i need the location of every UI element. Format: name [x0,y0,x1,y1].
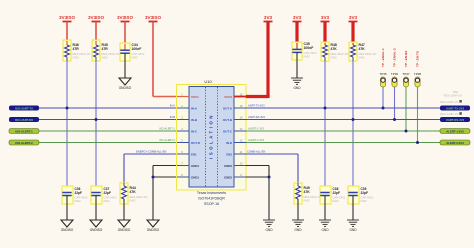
svg-text:ISO-UART-TX: ISO-UART-TX [15,106,33,110]
svg-text:ISOLATION: ISOLATION [209,113,214,159]
wire ALERT-2-3V3 [246,138,440,142]
svg-text:GND1: GND1 [191,175,199,179]
ground GND 4 [347,220,359,232]
svg-text:47K: 47K [304,190,311,194]
svg-text:VCC2: VCC2 [224,95,232,99]
svg-text:GNDISO: GNDISO [61,228,74,232]
wire C34 to GNDISO [124,61,126,78]
net label UART-TX-3V3 [440,106,470,111]
svg-text:47K: 47K [359,47,366,51]
svg-text:3V3ISO: 3V3ISO [59,15,76,20]
wire R45 net ISO-UART-RX vertical [95,61,97,192]
svg-text:RES-100R-1%: RES-100R-1% [440,112,459,116]
wire C35 to GND [296,60,298,78]
net label ALERT-2-3V3 [440,140,470,145]
svg-text:47K: 47K [130,190,137,194]
svg-text:0402: 0402 [359,56,366,60]
svg-text:IN-C: IN-C [191,129,198,133]
svg-text:0402: 0402 [102,56,109,60]
test point TP38 [414,50,422,87]
svg-text:0402: 0402 [104,199,111,203]
svg-text:ISO-ALERT-1: ISO-ALERT-1 [159,127,175,131]
wire TP38 [417,87,419,143]
svg-text:ENERGY-COMB-ALL-EN: ENERGY-COMB-ALL-EN [136,150,166,154]
net label ISO-ALERT-1 [9,129,39,134]
svg-text:3V3: 3V3 [293,15,302,20]
svg-text:0402: 0402 [304,55,311,59]
svg-text:22pF: 22pF [333,191,340,195]
power 3V3 P6 [293,15,302,44]
test point TP35 [379,48,387,87]
net label UART-RX-3V3 [440,117,470,122]
svg-text:ALERT-1-3V3: ALERT-1-3V3 [446,129,464,133]
svg-text:47K: 47K [331,47,338,51]
wire C39 to GND [352,204,354,220]
svg-text:TP - EN-RX: TP - EN-RX [404,50,408,67]
note grey DNP R51 [440,112,462,116]
junction GND2 [268,176,271,179]
power 3V3ISO P2 [88,15,105,41]
svg-text:UART-RX-3V3: UART-RX-3V3 [248,115,265,119]
svg-text:RES-100R-1%: RES-100R-1% [444,94,463,98]
svg-text:GND2: GND2 [224,175,232,179]
svg-text:IN-B: IN-B [170,115,175,119]
svg-text:100nF: 100nF [304,46,314,50]
resistor R45 [92,40,120,61]
svg-text:TP - EN-TX: TP - EN-TX [416,50,420,67]
svg-text:IN-A: IN-A [191,106,198,110]
svg-text:IN-A: IN-A [170,104,175,108]
svg-text:IN-D: IN-D [226,141,232,145]
wire GND1 pins to GNDISO [153,166,189,221]
wire UART-RX-3V3 [246,115,440,119]
svg-text:0402: 0402 [361,199,368,203]
svg-text:0402: 0402 [75,199,82,203]
svg-text:TP35: TP35 [379,72,387,76]
svg-text:ISO-ALERT-2: ISO-ALERT-2 [159,138,175,142]
power 3V3 P5 [264,15,273,97]
ground GND top [291,78,303,90]
svg-text:RES-100R-1%: RES-100R-1% [440,100,459,104]
svg-text:U10: U10 [204,79,212,84]
svg-text:ALERT-1-3V3: ALERT-1-3V3 [248,127,265,131]
test point TP37 [402,50,410,87]
resistor R46 [63,40,91,61]
wire R49 to GND [297,204,299,220]
svg-text:COMB-ALL-EN: COMB-ALL-EN [247,150,265,154]
wire ISO-UART-TX [39,104,189,108]
svg-text:UART-TX-3V3: UART-TX-3V3 [248,104,265,108]
resistor R47 [349,42,377,61]
net label ISO-ALERT-2 [9,140,39,145]
svg-text:IN-B: IN-B [191,118,197,122]
wire TP35 [382,87,384,108]
svg-text:0402: 0402 [73,56,80,60]
svg-text:0402: 0402 [130,199,137,203]
svg-text:GND1: GND1 [191,164,199,168]
ground GNDISO 3 [118,220,131,232]
svg-text:TP38: TP38 [414,72,422,76]
svg-text:TP - EN/AL-2: TP - EN/AL-2 [393,48,397,67]
capacitor C36 [62,186,88,204]
svg-text:3V3ISO: 3V3ISO [117,15,134,20]
power 3V3 P8 [349,15,358,45]
svg-text:GND: GND [349,228,357,232]
wire C36 to GNDISO [66,204,68,220]
svg-text:OUT-D: OUT-D [191,141,200,145]
svg-text:TP37: TP37 [402,72,410,76]
capacitor C38 [320,186,346,204]
junction UART-TX / TP35 [382,107,385,110]
svg-text:0402: 0402 [331,56,338,60]
svg-text:GND: GND [321,228,329,232]
svg-text:GND: GND [294,228,302,232]
junction GND1 [152,176,155,179]
note grey DNP R50 [440,100,462,104]
svg-text:Texas Instruments: Texas Instruments [197,191,226,195]
svg-text:3V3ISO: 3V3ISO [88,15,105,20]
ground GNDISO 1 [61,220,74,232]
svg-text:TP36: TP36 [391,72,399,76]
wire R47 vertical to UART-RX and C39 [352,61,354,192]
power 3V3ISO P4 [145,15,162,97]
svg-text:22pF: 22pF [104,191,111,195]
svg-text:0402: 0402 [304,199,311,203]
svg-text:ALERT-2-3V3: ALERT-2-3V3 [446,141,464,145]
svg-text:GND: GND [265,228,273,232]
wire ENERGY-COMB-ALL-EN to EN1 [124,150,189,183]
resistor R44 [120,183,148,204]
ground GND 1 [263,220,275,232]
wire COMB-ALL-EN to EN2 [246,150,298,183]
svg-text:GNDISO: GNDISO [119,86,132,90]
net label ISO-UART-RX [9,117,39,122]
net label ISO-UART-TX [9,106,39,111]
junction UART-RX / R47 [352,118,355,121]
junction ALERT-1 / TP37 [405,130,408,133]
capacitor C37 [91,186,117,204]
svg-text:3V3ISO: 3V3ISO [145,15,162,20]
svg-text:22pF: 22pF [75,191,82,195]
wire TP36 [394,87,396,120]
svg-text:3V3: 3V3 [264,15,273,20]
ground GNDISO 2 [90,220,103,232]
power 3V3ISO P1 [59,15,76,41]
svg-text:100nF: 100nF [132,47,142,51]
svg-text:GNDISO: GNDISO [147,228,160,232]
wire ALERT-1-3V3 [246,127,440,131]
power 3V3 P7 [321,15,330,45]
svg-text:0402: 0402 [333,199,340,203]
wire R46 net ISO-UART-TX vertical [66,61,68,192]
svg-text:ISO-ALERT-2: ISO-ALERT-2 [15,141,33,145]
junction UART-RX / TP36 [393,118,396,121]
svg-text:3V3: 3V3 [321,15,330,20]
svg-text:UART-TX-3V3: UART-TX-3V3 [446,106,464,110]
test point TP36 [391,48,399,87]
svg-text:ISO7041FDBQR: ISO7041FDBQR [198,197,225,201]
svg-text:GND: GND [293,86,301,90]
svg-text:22pF: 22pF [361,191,368,195]
svg-text:OUT-B: OUT-B [223,118,232,122]
svg-text:EN1: EN1 [191,152,197,156]
op-amp U1 replaced: digital isolator U10 ISO7041FDBQR [177,79,247,206]
junction ISO-UART-RX / R45 [95,118,98,121]
wire ISO-ALERT-2 [39,138,189,142]
junction ISO-UART-TX / R46 [66,107,69,110]
svg-text:ISO-UART-RX: ISO-UART-RX [15,118,33,122]
resistor R49 [294,183,322,204]
svg-text:UART-RX-3V3: UART-RX-3V3 [446,118,465,122]
ground GNDISO top [119,78,132,90]
svg-text:ALERT-2-3V3: ALERT-2-3V3 [248,138,265,142]
wire 3V3ISO to VCC1 [153,96,178,98]
wire TP37 [405,87,407,131]
junction ALERT-2 / TP38 [416,141,419,144]
net label ALERT-1-3V3 [440,129,470,134]
junction UART-TX / R48 [324,107,327,110]
svg-text:GNDISO: GNDISO [90,228,103,232]
capacitor C39 [348,186,374,204]
wire C37 to GNDISO [95,204,97,220]
capacitor C34 [120,43,145,61]
wire 3V3 to VCC2 [246,95,270,98]
svg-text:OUT-A: OUT-A [223,106,233,110]
svg-text:GND2: GND2 [224,164,232,168]
svg-text:0402: 0402 [132,56,139,60]
svg-text:47R: 47R [102,47,109,51]
svg-text:SSOP-16: SSOP-16 [204,202,219,206]
resistor R48 [321,42,349,61]
wire UART-TX-3V3 [246,104,440,108]
ground GNDISO 4 [147,220,160,232]
ground GND 2 [292,220,304,232]
svg-text:TP - EN/AL-1: TP - EN/AL-1 [381,48,385,67]
svg-text:VCC1: VCC1 [191,95,199,99]
svg-text:EN2: EN2 [226,152,232,156]
wire ISO-ALERT-1 [39,127,189,131]
wire GND2 pins to GND [246,166,269,221]
wire R44 to GNDISO [123,204,125,220]
ground GND 3 [319,220,331,232]
svg-text:47R: 47R [73,47,80,51]
svg-text:ISO-ALERT-1: ISO-ALERT-1 [15,129,33,133]
capacitor C35 [292,42,317,60]
wire R48 vertical to UART-TX and C38 [324,61,326,192]
svg-text:GNDISO: GNDISO [118,228,131,232]
wire ISO-UART-RX [39,115,189,119]
svg-text:OUT-C: OUT-C [223,129,233,133]
svg-text:3V3: 3V3 [349,15,358,20]
wire C38 to GND [324,204,326,220]
note grey corner [444,90,463,98]
power 3V3ISO P3 [117,15,134,44]
